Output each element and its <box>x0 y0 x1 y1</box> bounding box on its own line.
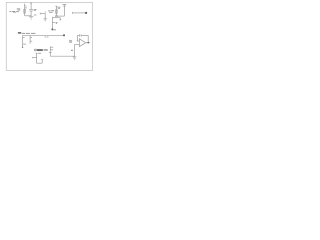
node OUT dot <box>85 12 87 14</box>
transistor Q1 <box>49 46 53 56</box>
wire ground rail <box>50 55 74 57</box>
resistor R3 <box>30 35 32 43</box>
node dot V2 bottom <box>22 47 23 48</box>
label text N2 <box>56 22 58 24</box>
sheet background <box>0 0 98 74</box>
label text V1 value <box>17 9 20 11</box>
net label IN (dark) <box>18 32 21 34</box>
resistor R2 <box>55 6 57 16</box>
label text row V2 <box>22 33 36 34</box>
resistor R1 <box>24 4 31 16</box>
wire op-amp output <box>86 42 90 44</box>
node dot net A <box>63 34 65 36</box>
wire net A <box>23 34 64 36</box>
label at J1 <box>54 28 56 31</box>
wire net N2 <box>52 17 61 30</box>
schematic components group <box>9 3 90 63</box>
node junction J2 <box>87 42 89 44</box>
label text C3 <box>38 52 41 55</box>
op-amp U1 <box>75 39 86 47</box>
ground (N1) <box>44 19 47 21</box>
schematic sheet border frame <box>6 2 92 70</box>
wire to output dot <box>73 12 86 14</box>
capacitor C3 <box>33 53 44 63</box>
label text U1 <box>69 40 73 50</box>
wire bottom C cluster <box>55 15 65 17</box>
label text R2 value <box>48 7 60 13</box>
capacitor C1 with ground <box>29 3 33 16</box>
capacitor C2 feedback <box>77 34 88 43</box>
junction R2 bottom <box>55 15 58 17</box>
node junction J1 <box>51 28 53 30</box>
voltage source V2 <box>23 35 27 47</box>
net label OUT (dark with symbol) <box>35 49 43 51</box>
label text net A <box>45 36 49 39</box>
value label C1 <box>34 9 37 15</box>
label text row source S1 <box>9 11 19 13</box>
wire node N1 <box>40 11 45 19</box>
power rail VCC <box>63 5 67 16</box>
ground (U1) <box>73 56 77 59</box>
wire +input down <box>74 44 76 56</box>
ground (C1) <box>29 16 33 19</box>
